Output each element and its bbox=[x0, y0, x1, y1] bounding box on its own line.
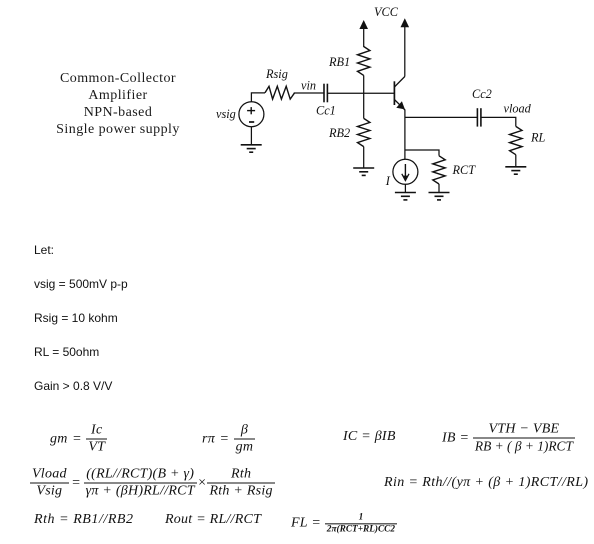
resistor RCT bbox=[433, 156, 445, 184]
formula Rth bbox=[34, 512, 134, 528]
svg-text:Cc1: Cc1 bbox=[316, 104, 336, 118]
capacitor Cc2 bbox=[477, 108, 481, 126]
current source I bbox=[393, 159, 418, 184]
wire current source to ground bbox=[404, 184, 406, 192]
formula FL bbox=[291, 512, 397, 535]
formula rpi bbox=[202, 423, 255, 456]
resistor RB2 bbox=[358, 118, 370, 146]
svg-text:Rsig: Rsig bbox=[265, 67, 288, 81]
formula IC bbox=[343, 429, 396, 445]
wire vsig to Rsig bbox=[251, 93, 265, 102]
svg-text:RB1: RB1 bbox=[328, 55, 350, 69]
wire emitter node to RCT branch bbox=[405, 150, 439, 156]
source vsig (+/-) bbox=[239, 102, 264, 127]
formula Rin bbox=[384, 475, 588, 491]
ground (RCT) bbox=[429, 193, 450, 200]
parameter list bbox=[34, 243, 54, 257]
wire Cc2 to RL bbox=[481, 117, 516, 126]
wire RL to ground bbox=[515, 155, 517, 167]
svg-text:VCC: VCC bbox=[374, 5, 399, 19]
wire Rsig to Cc1 bbox=[294, 92, 324, 94]
wire vsig to ground bbox=[250, 127, 252, 145]
svg-text:vin: vin bbox=[301, 79, 316, 93]
svg-text:RL: RL bbox=[530, 131, 546, 145]
wire base rail junction to RB2 bbox=[363, 93, 365, 118]
ground (current source) bbox=[395, 193, 416, 200]
formula IB bbox=[442, 422, 575, 455]
ground (RB2) bbox=[353, 168, 374, 175]
formula Rout bbox=[165, 512, 261, 528]
resistor RB1 bbox=[358, 47, 370, 76]
wire Cc1 to transistor base bbox=[328, 92, 395, 94]
svg-text:vload: vload bbox=[504, 102, 532, 116]
svg-text:RCT: RCT bbox=[452, 163, 477, 177]
capacitor Cc1 bbox=[324, 84, 327, 103]
svg-text:Cc2: Cc2 bbox=[472, 87, 492, 101]
ground (vsig) bbox=[241, 145, 262, 152]
wire emitter to Cc2 bbox=[405, 116, 477, 118]
power arrow to VCC (RB1 branch) bbox=[359, 20, 368, 47]
transistor Q1 (NPN) bbox=[394, 77, 405, 111]
wire RCT to ground bbox=[438, 184, 440, 193]
power arrow to VCC (collector branch) bbox=[401, 18, 410, 76]
formula gain bbox=[30, 467, 275, 500]
wire emitter down bbox=[404, 110, 406, 160]
formula gm bbox=[50, 423, 107, 456]
svg-text:RB2: RB2 bbox=[328, 126, 350, 140]
wire RB2 to ground bbox=[363, 147, 365, 168]
resistor Rsig bbox=[265, 86, 295, 99]
ground (RL) bbox=[505, 167, 526, 174]
svg-text:vsig: vsig bbox=[216, 107, 236, 121]
resistor RL bbox=[510, 126, 522, 154]
title text block bbox=[18, 70, 218, 139]
wire RB1 bottom to base rail bbox=[363, 75, 365, 93]
svg-text:I: I bbox=[385, 174, 391, 188]
